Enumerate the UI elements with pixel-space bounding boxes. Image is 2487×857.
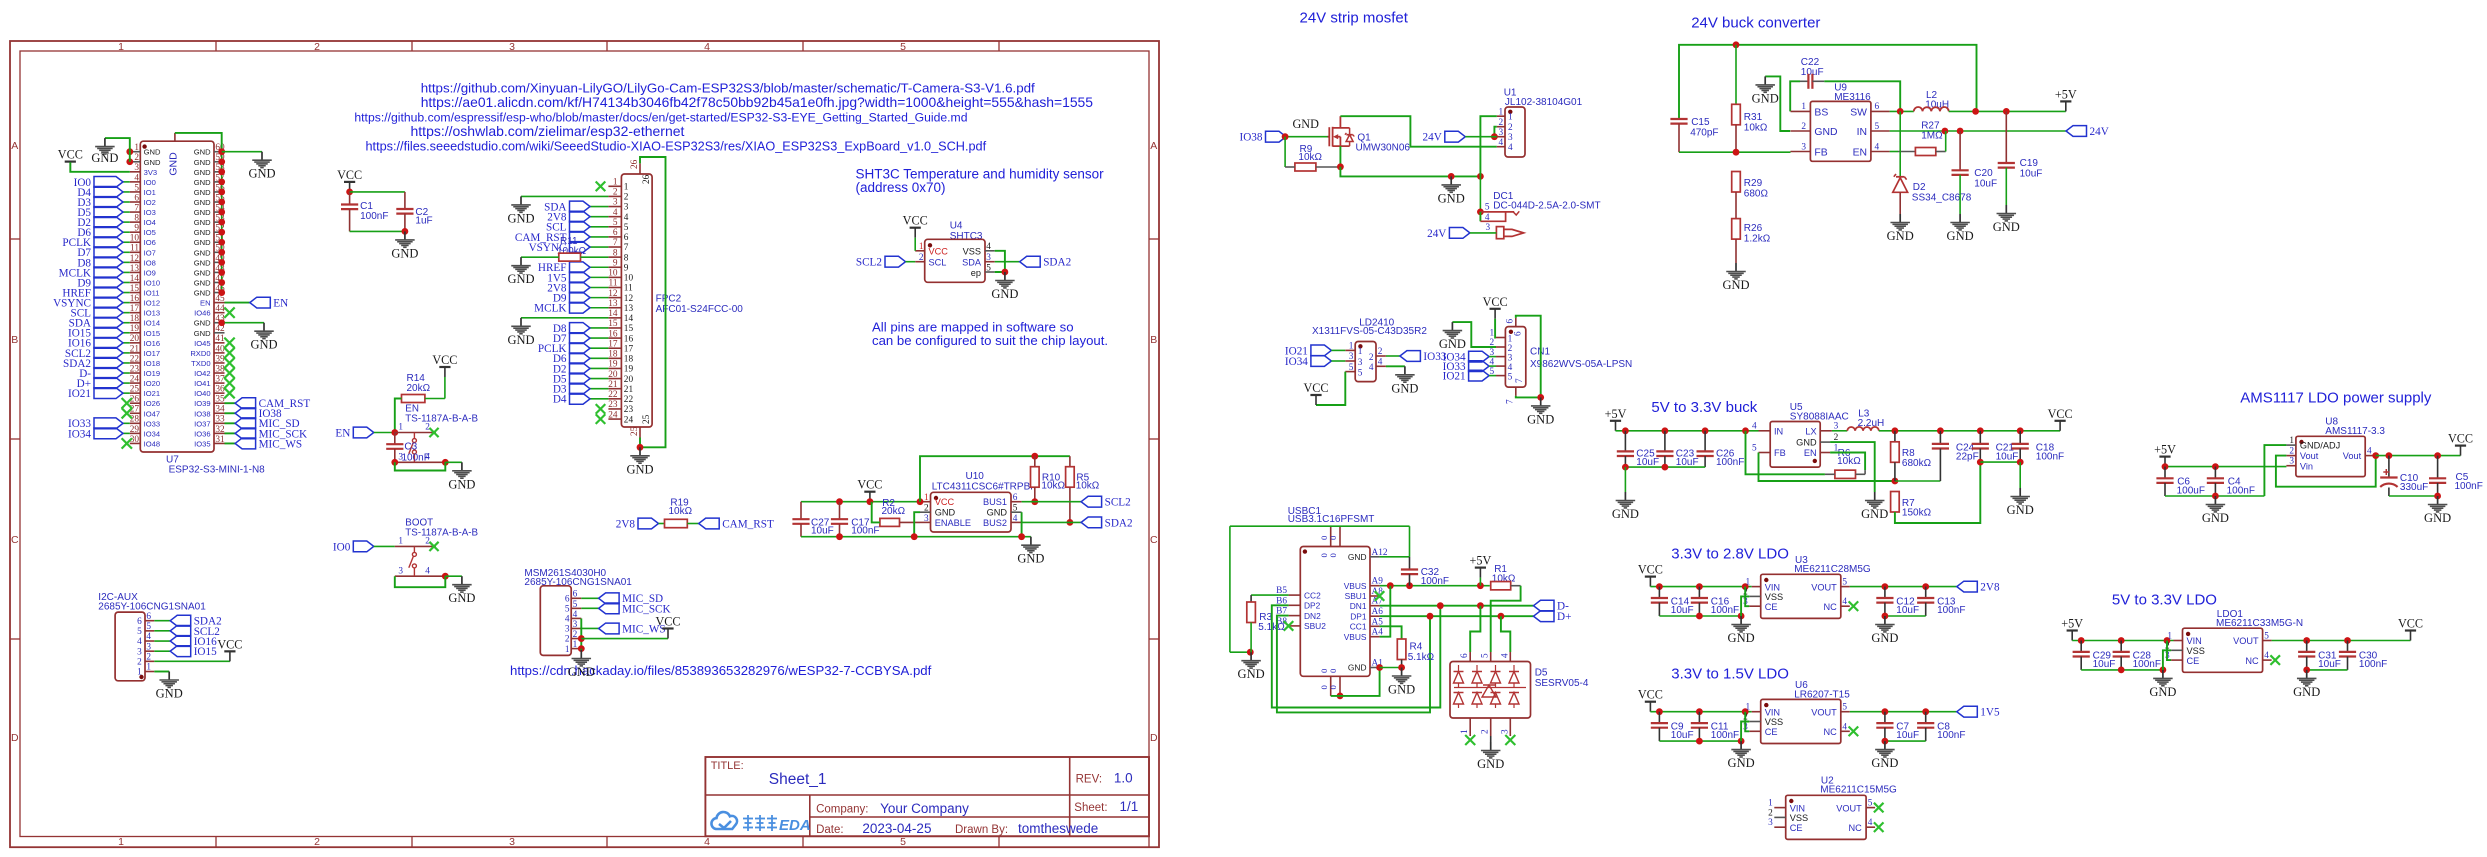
svg-text:GND: GND <box>2293 685 2320 699</box>
I2C-AUX pin 4 <box>137 632 154 647</box>
connector USBC1 USB3.1C16PFSMT body <box>1288 506 1375 676</box>
LDO1 pin stubs and numbers <box>2165 632 2272 662</box>
resistor R9 10k <box>1285 137 1340 171</box>
svg-text:VIN: VIN <box>1765 707 1780 717</box>
svg-text:5: 5 <box>1358 368 1363 378</box>
svg-text:GND: GND <box>156 687 183 701</box>
svg-text:3V3: 3V3 <box>144 168 158 177</box>
net flag 2V8 at FPC2 pin 11 <box>547 282 608 294</box>
svg-text:CE: CE <box>1790 823 1803 833</box>
net flag MIC_SCK at MSM261 pin 5 <box>581 603 670 615</box>
svg-text:+5V: +5V <box>1605 407 1627 421</box>
svg-text:AMS1117 LDO power supply: AMS1117 LDO power supply <box>2240 390 2432 407</box>
title block <box>705 757 1149 836</box>
svg-text:100nF: 100nF <box>1937 605 1965 616</box>
svg-text:3: 3 <box>1508 133 1513 143</box>
svg-text:Company:: Company: <box>816 804 868 816</box>
svg-text:9: 9 <box>624 263 629 273</box>
net flag IO16 at U7 pin 20 <box>68 337 130 349</box>
svg-text:BS: BS <box>1814 107 1828 118</box>
svg-text:15: 15 <box>608 319 618 329</box>
svg-text:GND: GND <box>1348 663 1367 673</box>
FPC2 pin 25 bottom stub <box>630 414 652 437</box>
FPC2 pin 22 <box>608 390 633 405</box>
svg-text:1: 1 <box>146 663 151 673</box>
U7 pin 25 IO21 <box>130 385 160 399</box>
IC U2 ME6211C15M5G body <box>1786 775 1897 839</box>
USBC1 pin A9 VBUS <box>1344 577 1384 591</box>
svg-text:17: 17 <box>608 339 618 349</box>
capacitor C15 470pF <box>1670 117 1718 152</box>
net flag IO16 at I2C-AUX pin 4 <box>154 636 217 648</box>
svg-text:IO37: IO37 <box>194 419 210 428</box>
USBC1 pin A4 VBUS <box>1344 628 1384 642</box>
svg-text:4: 4 <box>704 41 710 53</box>
svg-text:X1311FVS-05-C43D35R2: X1311FVS-05-C43D35R2 <box>1312 326 1427 337</box>
svg-text:6: 6 <box>137 617 142 627</box>
FPC2 pin 10 <box>608 269 633 284</box>
ground symbol at U7 pin43 <box>250 323 277 352</box>
USBC1 pin A12 GND <box>1348 548 1388 562</box>
svg-text:1: 1 <box>398 423 403 433</box>
svg-text:LX: LX <box>1805 426 1816 436</box>
svg-text:1: 1 <box>137 668 142 678</box>
svg-text:IO16: IO16 <box>144 339 160 348</box>
svg-text:GND: GND <box>194 278 211 287</box>
wire VCC to U4 pin1 <box>914 238 916 251</box>
U7 pin 7 IO3 <box>130 203 156 217</box>
svg-text:GND: GND <box>1017 552 1044 566</box>
svg-text:3.3V to 1.5V LDO: 3.3V to 1.5V LDO <box>1671 665 1789 682</box>
svg-text:5: 5 <box>986 263 991 273</box>
svg-text:7: 7 <box>613 238 618 248</box>
svg-text:10: 10 <box>624 274 634 284</box>
U7 pin 19 IO15 <box>130 324 160 338</box>
U10 pin stubs and numbers <box>920 493 1022 524</box>
svg-text:IO39: IO39 <box>194 399 210 408</box>
resistor R19 10k <box>665 498 693 528</box>
CN1 pin 1 <box>1490 329 1513 345</box>
svg-text:C: C <box>1150 534 1158 546</box>
capacitor C1 100nF <box>341 192 388 232</box>
ground symbol below R26 <box>1722 263 1749 292</box>
svg-text:12: 12 <box>130 254 140 264</box>
svg-text:680Ω: 680Ω <box>1744 188 1769 199</box>
FPC2 pin 21 <box>608 380 633 395</box>
svg-text:6: 6 <box>1013 493 1018 503</box>
svg-text:3: 3 <box>613 198 618 208</box>
USBC1 pin A7 DN1 <box>1350 597 1383 611</box>
inductor L3 2.2uH <box>1832 409 1884 431</box>
wire LDO1 input caps bottom <box>2081 667 2166 674</box>
svg-text:470pF: 470pF <box>1690 127 1718 138</box>
svg-text:5: 5 <box>1349 363 1354 373</box>
net flag D8 at U7 pin 12 <box>77 257 129 269</box>
CN1 pin 4 <box>1490 357 1513 373</box>
svg-text:100nF: 100nF <box>1711 730 1739 741</box>
U7 pin 23 IO19 <box>130 364 160 378</box>
no-connect X at BOOT switch pin2 <box>429 542 438 551</box>
svg-text:TITLE:: TITLE: <box>711 760 744 772</box>
svg-text:10uF: 10uF <box>811 526 834 537</box>
section title 5V to 3.3V LDO <box>2112 591 2217 608</box>
net flag 24V at DC1 pin3 <box>1427 228 1496 240</box>
U7 pin 14 IO10 <box>130 274 160 288</box>
capacitor C29 10uF <box>2073 641 2116 670</box>
svg-text:IO6: IO6 <box>144 238 156 247</box>
CN1 pin6 pin7 loop to ground <box>1506 316 1544 404</box>
wire D5 pin2 to ground <box>1490 736 1492 742</box>
svg-text:GND: GND <box>250 338 277 352</box>
svg-text:16: 16 <box>130 294 140 304</box>
capacitor C23 10uF <box>1656 431 1698 468</box>
svg-text:TS-1187A-B-A-B: TS-1187A-B-A-B <box>405 413 478 424</box>
svg-text:2: 2 <box>1801 122 1806 132</box>
wire LDO1 input rail <box>2072 637 2173 644</box>
net flag SDA at FPC2 pin 3 <box>544 201 608 213</box>
bottom URL text <box>510 663 932 678</box>
FPC2 pin 16 <box>608 329 633 344</box>
svg-text:IO38: IO38 <box>1240 132 1263 144</box>
net flag D2 at U7 pin 8 <box>77 217 129 229</box>
svg-text:GND: GND <box>194 258 211 267</box>
svg-text:GND: GND <box>194 208 211 217</box>
U7 pin 21 IO17 <box>130 344 160 358</box>
U7 pin 37 IO41 <box>194 374 225 388</box>
svg-text:5: 5 <box>1752 443 1757 453</box>
svg-text:VSS: VSS <box>1765 717 1783 727</box>
svg-text:330uF: 330uF <box>2400 482 2428 493</box>
ground symbol below U6 output caps <box>1871 741 1898 770</box>
FPC2 pin 26 top stub <box>630 159 652 184</box>
svg-text:6: 6 <box>1506 319 1516 324</box>
VCC power symbol at U3 input <box>1638 563 1663 587</box>
svg-text:GND: GND <box>1728 631 1755 645</box>
switch EN TS-1187A-B-A-B <box>395 403 479 462</box>
net flag D- <box>1534 600 1570 612</box>
svg-text:IO47: IO47 <box>144 409 160 418</box>
resistor R7 150k <box>1891 462 1981 523</box>
svg-text:GND: GND <box>1388 683 1415 697</box>
svg-text:7: 7 <box>624 243 629 253</box>
svg-text:6: 6 <box>134 193 139 203</box>
svg-text:5: 5 <box>1508 372 1513 382</box>
ground symbol below D2 <box>1887 214 1914 243</box>
svg-text:9: 9 <box>134 224 139 234</box>
svg-text:0: 0 <box>1328 685 1338 689</box>
svg-text:IO21: IO21 <box>68 388 91 400</box>
wire VBUS rail from A9 <box>1380 582 1490 589</box>
svg-text:10uF: 10uF <box>1896 730 1919 741</box>
U7 pin 30 IO48 <box>130 435 160 449</box>
svg-text:32: 32 <box>215 425 225 435</box>
svg-text:5: 5 <box>1485 203 1490 213</box>
capacitor C21 10uF <box>1972 431 2019 466</box>
svg-text:MIC_SCK: MIC_SCK <box>622 603 671 615</box>
svg-text:VCC: VCC <box>935 497 955 507</box>
svg-text:GND: GND <box>194 188 211 197</box>
svg-text:GND: GND <box>194 178 211 187</box>
MSM261 pin 4 <box>565 610 581 625</box>
svg-text:24: 24 <box>130 374 140 384</box>
ground symbol below U3 input caps <box>1728 616 1755 645</box>
svg-text:0: 0 <box>1328 536 1338 540</box>
U7 pin 35 IO39 <box>194 395 225 409</box>
svg-text:3: 3 <box>1801 142 1806 152</box>
svg-text:25: 25 <box>630 426 640 436</box>
svg-text:DN2: DN2 <box>1304 611 1321 621</box>
svg-text:4: 4 <box>137 637 142 647</box>
svg-text:VOUT: VOUT <box>1811 707 1837 717</box>
net flag IO15 at I2C-AUX pin 3 <box>154 646 217 658</box>
CN1 pin 2 <box>1490 338 1513 354</box>
net flag IO15 at U7 pin 19 <box>68 327 130 339</box>
capacitor C14 10uF <box>1651 587 1694 616</box>
svg-text:3: 3 <box>924 514 929 524</box>
svg-text:VOUT: VOUT <box>1811 582 1837 592</box>
FPC2 pin 8 <box>608 248 628 263</box>
net flag SDA2 at U7 pin 22 <box>63 358 130 370</box>
svg-text:4: 4 <box>1500 653 1510 658</box>
svg-text:12: 12 <box>608 289 618 299</box>
U7 pin 24 IO20 <box>130 374 160 388</box>
wire U6 output caps bottom <box>1882 738 1926 745</box>
wire U5 FB to divider <box>1759 453 1941 485</box>
wire +5V to VBUS <box>1479 578 1481 586</box>
U7 pin 10 IO6 <box>130 234 156 248</box>
no-connect X at U2 NC <box>1874 822 1884 832</box>
svg-text:VCC: VCC <box>432 353 457 367</box>
svg-text:2: 2 <box>137 658 142 668</box>
svg-text:10kΩ: 10kΩ <box>669 506 693 517</box>
svg-text:can be configured to suit the: can be configured to suit the chip layou… <box>872 333 1108 348</box>
LD2410 pin 5 <box>1345 363 1363 379</box>
wire U10 ground net <box>801 512 1031 540</box>
IC U6 LR6207-T15 body <box>1761 680 1851 743</box>
ground symbol at FPC2 pin8 <box>507 257 534 286</box>
svg-text:GND: GND <box>568 665 595 679</box>
svg-text:GND: GND <box>194 329 211 338</box>
svg-text:GND: GND <box>1238 667 1265 681</box>
net flag SCL2 at U7 pin 21 <box>65 348 130 360</box>
no-connect X at U6 NC pin <box>1849 727 1859 737</box>
FPC2 pin 14 <box>608 309 633 324</box>
svg-text:GND: GND <box>391 246 418 260</box>
net flag SDA2 at I2C-AUX pin 6 <box>154 615 221 627</box>
wire U3 CE to input rail <box>1745 587 1749 607</box>
wire FPC2 pin26 to pin25 loop <box>637 157 666 451</box>
no-connect X at U7 pin 27 <box>122 408 132 418</box>
svg-text:5V to 3.3V buck: 5V to 3.3V buck <box>1651 399 1757 416</box>
svg-text:6: 6 <box>1460 653 1470 658</box>
no-connect X at U7 pin 36 <box>224 388 234 398</box>
no-connect X at U7 pin 37 <box>224 378 234 388</box>
svg-text:13: 13 <box>130 264 140 274</box>
D5 top pins <box>1460 652 1510 662</box>
svg-text:GND: GND <box>1391 381 1418 395</box>
svg-text:5: 5 <box>900 836 906 848</box>
wire I2C-AUX pin2 to VCC <box>154 660 230 662</box>
svg-text:UMW30N06: UMW30N06 <box>1356 142 1411 153</box>
svg-text:24: 24 <box>608 410 618 420</box>
wire DP1 to D+ flag <box>1380 613 1534 620</box>
capacitor C18 100nF <box>2012 431 2065 463</box>
svg-text:VCC: VCC <box>1638 563 1663 577</box>
capacitor C4 100nF <box>2207 467 2255 497</box>
wire USBC1 DP2 to DN1 net <box>1272 605 1441 707</box>
svg-text:GND: GND <box>194 198 211 207</box>
svg-text:+5V: +5V <box>1470 554 1492 568</box>
svg-text:24V strip mosfet: 24V strip mosfet <box>1300 10 1409 27</box>
svg-text:GND: GND <box>2424 511 2451 525</box>
capacitor C7 10uF <box>1876 712 1919 741</box>
ground symbol below U5 <box>1861 492 1888 521</box>
svg-text:https://oshwlab.com/zielimar/e: https://oshwlab.com/zielimar/esp32-ether… <box>411 123 685 139</box>
svg-text:1: 1 <box>1746 578 1751 588</box>
svg-text:1.0: 1.0 <box>1114 771 1133 786</box>
net flag CAM_RST at U7 pin 35 <box>225 398 311 410</box>
U7 pin 6 IO2 <box>130 193 156 207</box>
VCC power symbol at I2C-AUX <box>217 637 242 661</box>
svg-text:FB: FB <box>1814 147 1827 158</box>
FPC2 pin 18 <box>608 350 633 365</box>
svg-text:5: 5 <box>624 223 629 233</box>
U7 pin 9 IO5 <box>130 224 156 238</box>
svg-text:VCC: VCC <box>655 615 680 629</box>
svg-text:3: 3 <box>624 203 629 213</box>
wire +5V input rail <box>1616 427 1759 434</box>
svg-text:3: 3 <box>1499 128 1504 138</box>
svg-text:4: 4 <box>1508 363 1513 373</box>
svg-text:SDA2: SDA2 <box>1105 517 1133 529</box>
svg-text:5: 5 <box>1842 703 1847 713</box>
no-connect X at U2 VOUT <box>1874 803 1884 813</box>
svg-text:REV:: REV: <box>1076 774 1102 786</box>
resistor R4 5.1k <box>1397 639 1434 668</box>
svg-text:IO21: IO21 <box>1443 371 1466 383</box>
U3 pin stubs and numbers <box>1743 578 1850 608</box>
connector LD2410 body <box>1312 317 1427 381</box>
ground symbol below U3 output caps <box>1871 616 1898 645</box>
VCC power symbol at LDO1 output <box>2398 617 2423 641</box>
svg-text:1: 1 <box>398 537 403 547</box>
+5V power symbol at buck output <box>2055 87 2077 111</box>
svg-text:12: 12 <box>624 294 634 304</box>
capacitor C16 100nF <box>1691 587 1739 616</box>
svg-text:1: 1 <box>573 640 578 650</box>
wire FPC2 pin2 to ground <box>521 195 608 197</box>
wire VCC to CN1 pin1 <box>1494 319 1497 338</box>
capacitor C5 100nF <box>2429 456 2483 496</box>
svg-text:2: 2 <box>314 41 320 53</box>
resistor R10 10k pullup <box>1031 456 1066 505</box>
svg-text:IO10: IO10 <box>144 278 160 287</box>
svg-text:GND: GND <box>626 462 653 476</box>
USBC1 pin B7 DN2 <box>1276 607 1321 621</box>
IC U5 SY8088IAAC body <box>1770 402 1849 467</box>
svg-text:SBU1: SBU1 <box>1345 591 1367 601</box>
svg-text:IO34: IO34 <box>1285 356 1308 368</box>
svg-text:5: 5 <box>2264 632 2269 642</box>
svg-text:USB3.1C16PFSMT: USB3.1C16PFSMT <box>1288 514 1375 525</box>
reference URL text block <box>354 80 1093 153</box>
svg-text:100nF: 100nF <box>402 453 430 464</box>
svg-text:4: 4 <box>2367 447 2372 457</box>
MSM261 pin 1 <box>565 640 581 655</box>
connector I2C-AUX body <box>98 592 206 681</box>
inductor L2 10uH <box>1914 90 1949 112</box>
wire U6 CE to input rail <box>1745 712 1749 732</box>
no-connect X at U7 pin 44 <box>224 307 234 317</box>
ground symbol at U7 pins 1-2 <box>91 138 118 165</box>
svg-text:IO14: IO14 <box>144 319 160 328</box>
svg-text:4: 4 <box>613 208 618 218</box>
net flag IO33 at U7 pin 28 <box>68 418 130 430</box>
svg-text:MCLK: MCLK <box>534 303 566 315</box>
svg-text:100nF: 100nF <box>1421 576 1449 587</box>
section title 3.3V to 2.8V LDO <box>1671 545 1789 562</box>
svg-text:5.1kΩ: 5.1kΩ <box>1408 652 1435 663</box>
section title 5V to 3.3V buck <box>1651 399 1757 416</box>
svg-text:VIN: VIN <box>2187 636 2202 646</box>
net flag SCL2 to U4 pin2 <box>856 256 915 268</box>
U7 pin 13 IO9 <box>130 264 156 278</box>
net label GND above wire <box>1293 117 1320 131</box>
net flag HREF at U7 pin 15 <box>62 287 129 299</box>
svg-text:DN1: DN1 <box>1350 601 1367 611</box>
ground symbol at USBC1 left <box>1238 652 1265 681</box>
svg-text:8: 8 <box>613 248 618 258</box>
U8 pin stubs and numbers <box>2286 436 2375 467</box>
svg-text:2: 2 <box>1499 118 1504 128</box>
IC U8 AMS1117-3.3 body <box>2296 417 2386 477</box>
svg-text:2: 2 <box>1768 808 1773 818</box>
svg-text:TS-1187A-B-A-B: TS-1187A-B-A-B <box>405 528 478 539</box>
no-connect X at U7 pin 26 <box>122 398 132 408</box>
svg-text:Your Company: Your Company <box>880 801 969 816</box>
svg-text:SW: SW <box>1850 107 1867 118</box>
svg-text:25: 25 <box>130 385 140 395</box>
svg-text:6: 6 <box>565 595 570 605</box>
svg-text:VSS: VSS <box>1765 592 1783 602</box>
svg-text:CE: CE <box>1765 602 1778 612</box>
svg-text:CAM_RST: CAM_RST <box>722 518 774 530</box>
svg-text:BUS1: BUS1 <box>983 497 1007 507</box>
wire LDO1 CE to input rail <box>2167 641 2171 661</box>
connector U1 JL102-38104G01 body <box>1504 88 1583 158</box>
VCC power symbol at U6 input <box>1638 688 1663 712</box>
capacitor C12 10uF <box>1876 587 1919 616</box>
svg-text:0: 0 <box>1328 553 1338 557</box>
net flag MIC_SD at U7 pin 33 <box>225 418 300 430</box>
svg-text:1: 1 <box>2167 632 2172 642</box>
svg-text:SCL: SCL <box>929 257 947 267</box>
svg-text:Drawn By:: Drawn By: <box>955 824 1008 836</box>
svg-text:1: 1 <box>565 645 570 655</box>
U6 pin stubs and numbers <box>1743 703 1850 733</box>
svg-text:GND: GND <box>448 591 475 605</box>
svg-text:6: 6 <box>146 612 151 622</box>
FPC2 pin 17 <box>608 339 633 354</box>
svg-text:6: 6 <box>1875 102 1880 112</box>
svg-text:5: 5 <box>137 627 142 637</box>
ESP32 module U7 body <box>140 141 265 475</box>
capacitor C20 10uF <box>1952 131 1998 214</box>
FPC2 pin 2 <box>608 188 628 203</box>
svg-text:Sheet:: Sheet: <box>1074 802 1107 814</box>
net flag MCLK at U7 pin 13 <box>59 267 130 279</box>
U7 pin 46 GND <box>194 284 225 298</box>
